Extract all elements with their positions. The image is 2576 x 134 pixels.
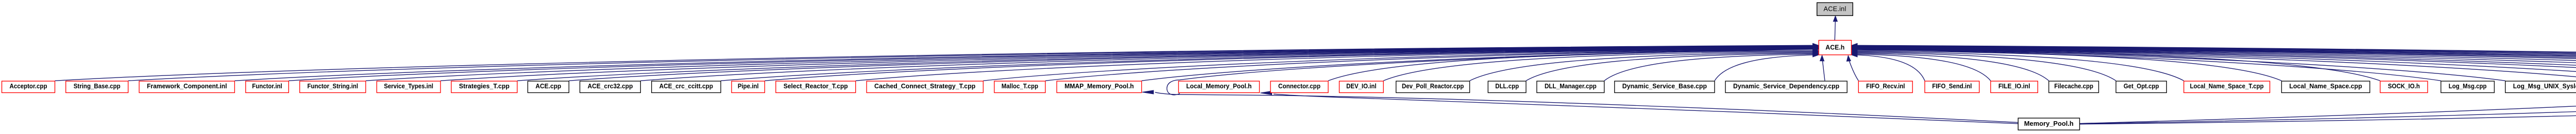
wire edge ACE_crc_ccitt.cpp to ACE.h (721, 48, 1814, 81)
node Framework_Component.inl (139, 81, 234, 93)
wire edge Get_Opt.cpp to ACE.h (1857, 52, 2116, 81)
svg-text:Acceptor.cpp: Acceptor.cpp (10, 82, 47, 90)
node Filecache.cpp (2049, 81, 2099, 93)
node Service_Types.inl (377, 81, 440, 93)
wire edge ACE.cpp to ACE.h (569, 47, 1814, 81)
arrowhead at ACE.h right from Local_Name_Space.cpp (1852, 49, 1857, 53)
svg-text:FILE_IO.inl: FILE_IO.inl (1998, 82, 2030, 90)
wire edge FILE_IO.inl to ACE.h (1857, 54, 1991, 81)
arrowhead at ACE.h right from Get_Opt.cpp (1852, 50, 1857, 54)
node Acceptor.cpp (2, 81, 55, 93)
arrowhead at Local_Memory_Pool.h from Memory_Pool.h (1261, 91, 1272, 95)
svg-text:Service_Types.inl: Service_Types.inl (384, 82, 433, 90)
wire edge Filecache.cpp to ACE.h (1857, 53, 2049, 81)
wire edge Memory_Pool.h to Pagefile_Memory_Pool.h (2080, 94, 2576, 124)
node FILE_IO.inl (1991, 81, 2038, 93)
node Functor.inl (246, 81, 289, 93)
svg-text:ACE.cpp: ACE.cpp (535, 82, 561, 90)
wire edge Process_Mutex.cpp to ACE.h (1857, 46, 2576, 81)
arrowhead at ACE.h left from Pipe.inl (1813, 46, 1819, 50)
arrowhead at ACE.h right from SOCK_IO.h (1852, 48, 1857, 52)
node Malloc_T.cpp (994, 81, 1045, 93)
arrowhead at ACE.h right from Shared_Memory_Pool.h (1852, 46, 1857, 50)
wire edge Cached_Connect_Strategy_T.cpp to ACE.h (983, 49, 1814, 81)
svg-text:Cached_Connect_Strategy_T.cpp: Cached_Connect_Strategy_T.cpp (874, 82, 975, 90)
svg-text:DLL.cpp: DLL.cpp (1495, 82, 1519, 90)
node DLL_Manager.cpp (1537, 81, 1604, 93)
wire edge FIFO_Recv.inl to ACE.h (bottom) (1850, 61, 1859, 81)
wire edge Pagefile_Memory_Pool.h to ACE.h (1857, 48, 2576, 81)
svg-text:Select_Reactor_T.cpp: Select_Reactor_T.cpp (784, 82, 848, 90)
wire edge Strategies_T.cpp to ACE.h (517, 47, 1814, 81)
arrowhead at ACE.h right from Sbrk_Memory_Pool.h (1852, 46, 1857, 50)
arrowhead at ACE.h right from Pagefile_Memory_Pool.h (1852, 46, 1857, 50)
arrowhead at ACE.h right from Process_Manager.cpp (1852, 45, 1857, 49)
wire edge DLL_Manager.cpp to ACE.h (1604, 54, 1814, 81)
arrowhead at ACE.h left from Dev_Poll_Reactor.cpp (1813, 50, 1819, 54)
arrowhead at ACE.h left from DEV_IO.inl (1813, 49, 1819, 53)
arrowhead at ACE.h right from NT_Service.h (1852, 45, 1857, 49)
svg-text:ACE.h: ACE.h (1825, 43, 1844, 51)
wire edge Service_Types.inl to ACE.h (440, 47, 1814, 81)
node Cached_Connect_Strategy_T.cpp (867, 81, 983, 93)
node FIFO_Send.inl (1925, 81, 1979, 93)
svg-text:Memory_Pool.h: Memory_Pool.h (2024, 120, 2074, 127)
arrowhead at ACE.h left from DLL_Manager.cpp (1813, 52, 1819, 56)
svg-text:Framework_Component.inl: Framework_Component.inl (147, 82, 227, 90)
node ACE.h (1819, 41, 1851, 55)
svg-text:Functor.inl: Functor.inl (252, 82, 282, 90)
wire edge Process.inl to ACE.h (1857, 47, 2576, 81)
svg-text:FIFO_Recv.inl: FIFO_Recv.inl (1866, 82, 1905, 90)
arrowhead at ACE.h right from Log_Msg_UNIX_Syslog.cpp (1852, 47, 1857, 51)
arrowhead at ACE.h left from Acceptor.cpp (1813, 43, 1819, 47)
node Log_Msg_UNIX_Syslog.cpp (2505, 81, 2576, 93)
svg-text:Pipe.inl: Pipe.inl (738, 82, 759, 90)
wire edge Semaphore.cpp to ACE.h (1857, 45, 2576, 81)
wire edge Local_Name_Space_T.cpp to ACE.h (1857, 52, 2184, 81)
wire edge Functor.inl to ACE.h (289, 46, 1814, 81)
arrowhead at ACE.h bottom from FIFO_Recv.inl (1846, 55, 1851, 61)
svg-text:Functor_String.inl: Functor_String.inl (308, 82, 359, 90)
node Dynamic_Service_Dependency.cpp (1725, 81, 1847, 93)
node Select_Reactor_T.cpp (776, 81, 856, 93)
wire edge MMAP_Memory_Pool.h to ACE.h (1142, 49, 1814, 81)
arrowhead at ACE.h right from Semaphore.cpp (1852, 43, 1857, 47)
arrowhead at ACE.h left from Malloc_T.cpp (1813, 47, 1819, 51)
svg-text:Dynamic_Service_Base.cpp: Dynamic_Service_Base.cpp (1622, 82, 1707, 90)
wire edge Select_Reactor_T.cpp to ACE.h (856, 48, 1814, 81)
node Log_Msg.cpp (2441, 81, 2495, 93)
wire edge DLL.cpp to ACE.h (1526, 53, 1814, 81)
svg-text:Filecache.cpp: Filecache.cpp (2054, 82, 2093, 90)
svg-text:Log_Msg_UNIX_Syslog.cpp: Log_Msg_UNIX_Syslog.cpp (2513, 82, 2576, 90)
wire edge ACE.h to ACE.inl (1835, 22, 1835, 41)
wire edge UNIX_Addr.h to ACE.h (1857, 48, 2576, 81)
arrowhead at ACE.h right from FILE_IO.inl (1852, 52, 1857, 56)
arrowhead at ACE.h right from RW_Process_Mutex.cpp (1852, 44, 1857, 48)
node DLL.cpp (1488, 81, 1526, 93)
node DEV_IO.inl (1340, 81, 1384, 93)
wire edge String_Base.cpp to ACE.h (128, 46, 1814, 81)
node Local_Name_Space.cpp (2282, 81, 2370, 93)
wire edge Local_Memory_Pool.h to ACE.h (loop) (1167, 49, 1814, 95)
arrowhead at ACE.h right from FIFO_Send.inl (1852, 53, 1857, 57)
arrowhead at ACE.h left from ACE_crc32.cpp (1813, 46, 1819, 50)
svg-text:ACE_crc32.cpp: ACE_crc32.cpp (588, 82, 633, 90)
arrowhead at ACE.h left from DLL.cpp (1813, 51, 1819, 55)
arrowhead at ACE.h right from Log_Record.cpp (1852, 47, 1857, 51)
wire edge Connector.cpp to ACE.h (1328, 51, 1814, 81)
node Dynamic_Service_Base.cpp (1615, 81, 1715, 93)
wire edge Logging_Strategy.cpp to ACE.h (1857, 49, 2576, 81)
arrowhead at ACE.h left from Connector.cpp (1813, 49, 1819, 53)
node ACE.cpp (528, 81, 569, 93)
wire edge Framework_Component.inl to ACE.h (234, 46, 1814, 81)
svg-text:Dev_Poll_Reactor.cpp: Dev_Poll_Reactor.cpp (1402, 82, 1464, 90)
svg-text:Connector.cpp: Connector.cpp (1278, 82, 1320, 90)
arrowhead at ACE.h right from OS_NS_string.cpp (1852, 45, 1857, 49)
svg-text:Log_Msg.cpp: Log_Msg.cpp (2449, 82, 2487, 90)
arrowhead at ACE.h left from Functor.inl (1813, 44, 1819, 48)
svg-text:DLL_Manager.cpp: DLL_Manager.cpp (1545, 82, 1597, 90)
wire edge Functor_String.inl to ACE.h (366, 46, 1814, 81)
arrowhead at ACE.h bottom from Dynamic_Service_Dependency.cpp (1820, 55, 1824, 61)
wire edge FIFO_Send.inl to ACE.h (1857, 55, 1925, 81)
svg-text:ACE_crc_ccitt.cpp: ACE_crc_ccitt.cpp (659, 82, 713, 90)
node Local_Memory_Pool.h (1179, 81, 1260, 93)
wire edge Pipe.inl to ACE.h (765, 48, 1814, 81)
wire edge Log_Msg.cpp to ACE.h (1857, 49, 2441, 81)
wire edge Memory_Pool.h to Local_Memory_Pool.h (1274, 94, 2018, 124)
wire edge DEV_IO.inl to ACE.h (1383, 51, 1814, 81)
wire edge ACE_crc32.cpp to ACE.h (640, 48, 1814, 81)
svg-text:ACE.inl: ACE.inl (1824, 5, 1846, 13)
node SOCK_IO.h (2380, 81, 2428, 93)
arrowhead at ACE.h right from UNIX_Addr.h (1852, 46, 1857, 50)
svg-text:Local_Name_Space_T.cpp: Local_Name_Space_T.cpp (2190, 82, 2264, 90)
node Strategies_T.cpp (451, 81, 517, 93)
node Local_Name_Space_T.cpp (2184, 81, 2270, 93)
arrowhead at ACE.h left from Select_Reactor_T.cpp (1813, 46, 1819, 50)
wire edge SOCK_IO.h to ACE.h (1857, 50, 2380, 81)
node Connector.cpp (1270, 81, 1328, 93)
wire edge Acceptor.cpp to ACE.h (55, 45, 1814, 81)
node Get_Opt.cpp (2116, 81, 2166, 93)
wire edge Dynamic_Service_Base.cpp to ACE.h (1715, 55, 1814, 81)
arrowhead at MMAP_Memory_Pool.h from Memory_Pool.h (1142, 90, 1154, 94)
arrowhead at ACE.h right from Filecache.cpp (1852, 51, 1857, 55)
wire edge RW_Process_Mutex.cpp to ACE.h (1857, 46, 2576, 81)
arrowhead at ACE.h left from Dynamic_Service_Base.cpp (1813, 53, 1819, 57)
arrowhead at ACE.inl from ACE.h (1833, 16, 1837, 22)
wire edge NT_Service.h to ACE.h (1857, 47, 2576, 81)
svg-text:FIFO_Send.inl: FIFO_Send.inl (1932, 82, 1972, 90)
wire edge Dev_Poll_Reactor.cpp to ACE.h (1470, 52, 1814, 81)
node Memory_Pool.h (2018, 118, 2079, 130)
wire edge Process_Semaphore.cpp to ACE.h (1857, 46, 2576, 81)
svg-text:Strategies_T.cpp: Strategies_T.cpp (459, 82, 510, 90)
arrowhead at ACE.h left from String_Base.cpp (1813, 44, 1819, 48)
svg-text:MMAP_Memory_Pool.h: MMAP_Memory_Pool.h (1064, 82, 1134, 90)
wire edge Memory_Pool.h to Shared_Memory_Pool.h (2080, 94, 2576, 124)
arrowhead at ACE.h left from ACE_crc_ccitt.cpp (1813, 46, 1819, 50)
svg-text:DEV_IO.inl: DEV_IO.inl (1346, 82, 1376, 90)
wire edge Malloc_T.cpp to ACE.h (1045, 49, 1814, 81)
arrowhead at ACE.h left from Service_Types.inl (1813, 45, 1819, 49)
wire edge Process_Manager.cpp to ACE.h (1857, 46, 2576, 81)
svg-text:Get_Opt.cpp: Get_Opt.cpp (2124, 82, 2159, 90)
arrowhead at ACE.h right from Process.inl (1852, 45, 1857, 49)
arrowhead at ACE.h left from ACE.cpp (1813, 45, 1819, 49)
arrowhead at ACE.h right from Log_Msg.cpp (1852, 47, 1857, 51)
svg-text:Dynamic_Service_Dependency.cpp: Dynamic_Service_Dependency.cpp (1733, 82, 1839, 90)
wire edge Dynamic_Service_Dependency.cpp to ACE.h (bottom) (1823, 61, 1825, 81)
node MMAP_Memory_Pool.h (1057, 81, 1142, 93)
svg-text:String_Base.cpp: String_Base.cpp (74, 82, 121, 90)
node Dev_Poll_Reactor.cpp (1396, 81, 1470, 93)
svg-text:SOCK_IO.h: SOCK_IO.h (2388, 82, 2420, 90)
arrowhead at ACE.h left from Cached_Connect_Strategy_T.cpp (1813, 47, 1819, 51)
arrowhead at ACE.h right from Local_Name_Space_T.cpp (1852, 50, 1857, 54)
wire edge Sbrk_Memory_Pool.h to ACE.h (1857, 48, 2576, 81)
node Functor_String.inl (300, 81, 366, 93)
arrowhead at ACE.h left from Framework_Component.inl (1813, 44, 1819, 48)
wire edge OS_NS_string.cpp to ACE.h (1857, 47, 2576, 81)
wire edge Memory_Pool.h to Sbrk_Memory_Pool.h (2080, 93, 2576, 124)
svg-text:Malloc_T.cpp: Malloc_T.cpp (1002, 82, 1038, 90)
arrowhead at ACE.h left from Local_Memory_Pool.h (1813, 47, 1819, 51)
wire edge Log_Record.cpp to ACE.h (1857, 49, 2576, 81)
node ACE_crc_ccitt.cpp (652, 81, 721, 93)
arrowhead at ACE.h right from Process_Mutex.cpp (1852, 44, 1857, 48)
svg-text:Local_Memory_Pool.h: Local_Memory_Pool.h (1187, 82, 1252, 90)
wire edge Memory_Pool.h to MMAP_Memory_Pool.h (1155, 92, 2018, 123)
arrowhead at ACE.h left from Strategies_T.cpp (1813, 45, 1819, 49)
arrowhead at ACE.h right from Logging_Strategy.cpp (1852, 47, 1857, 51)
wire edge Shared_Memory_Pool.h to ACE.h (1857, 48, 2576, 81)
node FIFO_Recv.inl (1858, 81, 1912, 93)
arrowhead at ACE.h left from MMAP_Memory_Pool.h (1813, 47, 1819, 51)
wire edge Local_Name_Space.cpp to ACE.h (1857, 51, 2282, 81)
node Pipe.inl (732, 81, 765, 93)
arrowhead at ACE.h right from Process_Semaphore.cpp (1852, 44, 1857, 48)
node String_Base.cpp (66, 81, 128, 93)
wire edge Log_Msg_UNIX_Syslog.cpp to ACE.h (1857, 49, 2505, 81)
svg-text:Local_Name_Space.cpp: Local_Name_Space.cpp (2289, 82, 2362, 90)
arrowhead at ACE.h left from Functor_String.inl (1813, 45, 1819, 49)
node ACE_crc32.cpp (580, 81, 641, 93)
node ACE.inl (root) (1817, 3, 1853, 15)
